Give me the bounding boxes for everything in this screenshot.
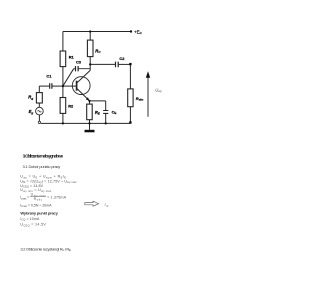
wire input vertical to Rg bbox=[38, 86, 40, 93]
wire R2 bottom bbox=[62, 113, 64, 123]
wire C1 to base junction bbox=[52, 85, 63, 87]
wire R1 top bbox=[62, 32, 64, 52]
junction node top rail Rc bbox=[89, 30, 91, 32]
svg-text:R1: R1 bbox=[69, 54, 75, 59]
arrow Uwy bbox=[147, 77, 149, 116]
junction node R2 bottom bbox=[62, 122, 64, 124]
junction node collector bbox=[89, 63, 91, 65]
svg-text:R2: R2 bbox=[68, 104, 74, 109]
resistor Rg bbox=[36, 93, 42, 103]
svg-text:Uwy min = Uwy max: Uwy min = Uwy max bbox=[20, 188, 52, 193]
wire Rg to Eg bbox=[38, 103, 40, 107]
wire base bbox=[63, 85, 76, 87]
capacitor C3 diagonal from base junction bbox=[63, 69, 74, 86]
supply terminal dot bbox=[130, 30, 132, 32]
svg-text:Icmax =: Icmax = bbox=[20, 196, 29, 201]
capacitor C1 bbox=[50, 83, 52, 89]
svg-text:3.1 Dobór punktu pracy: 3.1 Dobór punktu pracy bbox=[23, 164, 61, 169]
capacitor C2 bbox=[116, 62, 119, 68]
svg-text:+EC: +EC bbox=[134, 29, 143, 35]
svg-text:3. Obliczenia małosygnałowe: 3. Obliczenia małosygnałowe bbox=[23, 154, 64, 159]
wire top rail bbox=[63, 31, 131, 33]
wire output vertical top bbox=[129, 64, 131, 89]
wire Eg bottom bbox=[38, 115, 40, 121]
ground stub bbox=[89, 123, 91, 129]
svg-text:C1: C1 bbox=[46, 73, 52, 78]
wire C2 to output node bbox=[119, 63, 131, 65]
capacitor CE bbox=[103, 111, 108, 114]
svg-text:ICQ = 10mA: ICQ = 10mA bbox=[20, 217, 40, 222]
resistor R1 bbox=[60, 51, 66, 67]
svg-text:3.2 Obliczenie rezystancji RC: 3.2 Obliczenie rezystancji RC i RE bbox=[20, 246, 71, 252]
wire collector to C2 bbox=[90, 63, 115, 65]
capacitor C3 bbox=[74, 66, 91, 71]
resistor R2 bbox=[60, 98, 66, 114]
wire emitter vertical bbox=[89, 101, 91, 104]
transistor Q1 emitter arrowhead bbox=[86, 97, 89, 100]
wire input top from terminal corner to C1 bbox=[39, 85, 49, 87]
big hollow arrow bbox=[85, 201, 99, 206]
svg-text:CE: CE bbox=[112, 109, 117, 115]
junction node ground rail bbox=[88, 122, 90, 124]
transistor Q1 base bar bbox=[76, 81, 78, 91]
svg-text:Icq: Icq bbox=[105, 203, 109, 208]
resistor RE bbox=[87, 104, 93, 120]
resistor Rc bbox=[87, 40, 93, 57]
wire emitter to CE bbox=[90, 101, 106, 110]
svg-text:Rg: Rg bbox=[28, 95, 33, 101]
svg-text:= 1,375mA: = 1,375mA bbox=[47, 196, 67, 200]
svg-text:UCEQ = 14,5V: UCEQ = 14,5V bbox=[20, 223, 46, 228]
svg-text:Robc: Robc bbox=[136, 96, 144, 102]
svg-text:Icmax = 0,5N ÷ 20mA: Icmax = 0,5N ÷ 20mA bbox=[20, 204, 52, 209]
svg-text:Uwy: Uwy bbox=[155, 87, 162, 93]
junction node base bbox=[62, 85, 64, 87]
wire Rc top bbox=[89, 32, 91, 41]
transistor Q1 emitter line bbox=[77, 89, 90, 101]
junction node output bottom bbox=[129, 121, 131, 123]
junction node output top bbox=[129, 63, 131, 65]
source Eg bbox=[36, 107, 44, 115]
wire R1 bottom bbox=[62, 67, 64, 87]
junction node CE bottom bbox=[105, 122, 107, 124]
svg-text:C2: C2 bbox=[119, 56, 125, 61]
svg-text:C3: C3 bbox=[76, 60, 82, 65]
wire Rc bottom to collector node bbox=[89, 57, 91, 71]
svg-text:RE: RE bbox=[95, 110, 101, 116]
svg-text:Eg: Eg bbox=[29, 109, 34, 115]
wire CE bottom bbox=[105, 114, 107, 124]
ground bar bbox=[85, 130, 95, 133]
svg-text:Robc: Robc bbox=[34, 197, 43, 202]
transistor Q1 circle bbox=[72, 77, 90, 95]
wire RE bottom bbox=[89, 120, 91, 124]
junction node emitter bbox=[88, 100, 90, 102]
wire bottom rail bbox=[41, 122, 131, 124]
terminal bottom-left bbox=[38, 121, 40, 123]
svg-text:Wybrany punkt pracy: Wybrany punkt pracy bbox=[20, 210, 58, 215]
resistor Robc bbox=[128, 89, 133, 107]
transistor Q1 collector line bbox=[77, 70, 90, 83]
wire Robc bottom bbox=[129, 107, 131, 123]
wire R2 top bbox=[62, 86, 64, 97]
svg-text:RC: RC bbox=[95, 48, 101, 54]
